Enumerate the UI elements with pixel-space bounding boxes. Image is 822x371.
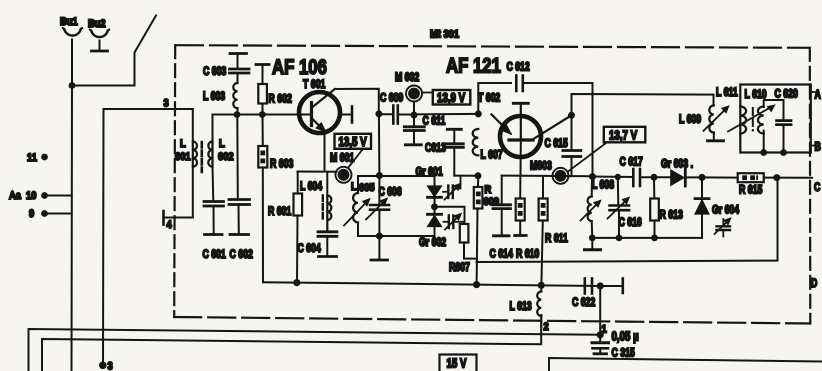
wire	[640, 176, 671, 178]
svg-text:T 601: T 601	[303, 79, 326, 91]
rail wire bottom	[263, 282, 600, 286]
svg-text:11: 11	[27, 152, 37, 164]
svg-text:D: D	[811, 278, 817, 290]
wire ground stem	[591, 238, 593, 249]
capacitor C601	[202, 167, 226, 262]
svg-text:C 622: C 622	[572, 297, 596, 309]
chassis bar under C601	[205, 233, 223, 236]
svg-text:602: 602	[218, 151, 234, 163]
wire switch to Bu1	[72, 85, 135, 87]
svg-text:1: 1	[601, 324, 606, 336]
chassis bar under C611	[405, 143, 421, 146]
svg-text:C 602: C 602	[230, 249, 254, 261]
svg-text:C 315: C 315	[611, 347, 635, 359]
ground bus wire	[592, 237, 702, 239]
node C616	[615, 174, 621, 180]
node mixer output	[589, 173, 596, 180]
wire Bu2 stem to bar	[99, 41, 101, 51]
svg-text:L: L	[351, 181, 357, 193]
capacitor C602	[229, 115, 253, 262]
measuring point M602	[395, 72, 433, 112]
svg-text:Bu2: Bu2	[88, 18, 106, 30]
node T602 collector	[568, 112, 575, 119]
wire emitter rail	[298, 171, 337, 173]
svg-text:L: L	[180, 138, 186, 150]
svg-text:13,5 V: 13,5 V	[339, 136, 368, 149]
node ground L608	[589, 235, 596, 242]
svg-text:T 602: T 602	[478, 92, 501, 104]
resistor R607	[449, 224, 477, 274]
bus line 2 (to node 2)	[42, 316, 541, 371]
15V supply box	[440, 355, 477, 371]
svg-text:M603: M603	[530, 160, 552, 172]
node tank bottom	[376, 233, 383, 240]
wire rail end	[600, 285, 622, 287]
diode Gr602	[379, 207, 446, 250]
svg-text:13,7 V: 13,7 V	[609, 129, 638, 142]
svg-text:15 V: 15 V	[446, 357, 466, 370]
svg-text:R 603: R 603	[270, 158, 294, 170]
inductor L609/L611 adjustable	[679, 87, 738, 140]
wire top link	[713, 95, 715, 106]
inductor L605 adjustable	[344, 176, 379, 236]
svg-text:R 611: R 611	[545, 233, 568, 245]
node 11	[27, 152, 48, 164]
svg-text:C 616: C 616	[618, 217, 642, 229]
inductor L603	[203, 83, 238, 108]
node emitter junction	[475, 110, 482, 117]
base bias wire	[502, 175, 593, 178]
svg-text:3: 3	[108, 361, 113, 371]
ground bar under Bu2	[92, 50, 108, 53]
svg-text:L 603: L 603	[203, 91, 225, 103]
inductor L610 secondary	[758, 100, 784, 153]
svg-text:10: 10	[26, 190, 37, 202]
node collector	[375, 110, 382, 117]
transistor T601	[299, 89, 352, 133]
voltage box 13,9V	[433, 90, 471, 105]
svg-text:9: 9	[29, 208, 34, 220]
capacitor C613	[425, 129, 463, 175]
wire C609 to node	[398, 114, 414, 116]
wire	[237, 73, 239, 83]
svg-text:M 602: M 602	[395, 72, 420, 84]
terminal A	[811, 89, 822, 101]
node box bottom L610	[760, 149, 767, 156]
svg-text:13,9 V: 13,9 V	[437, 92, 466, 105]
svg-text:R: R	[485, 184, 492, 196]
inductor L602	[208, 115, 234, 167]
svg-text:3: 3	[164, 98, 169, 110]
capacitor C622	[572, 279, 596, 310]
arrow through L610	[728, 105, 775, 132]
wire 9 stub	[45, 213, 72, 215]
svg-text:R 615: R 615	[739, 184, 763, 196]
svg-text:A: A	[814, 89, 821, 101]
svg-text:0,05 µ: 0,05 µ	[612, 330, 639, 343]
svg-text:C: C	[814, 182, 821, 194]
chassis bar above T602	[513, 102, 528, 105]
capacitor C603	[203, 66, 249, 78]
node tank rail dot A	[234, 111, 241, 118]
capacitor C604	[297, 232, 337, 256]
svg-text:Aa: Aa	[9, 190, 21, 202]
svg-text:L 609: L 609	[679, 114, 701, 126]
diode Gr603	[661, 158, 702, 186]
svg-text:L 613: L 613	[510, 301, 532, 313]
node diode mid	[431, 203, 438, 210]
wire collector up and right	[572, 94, 714, 115]
resistor R611	[539, 176, 568, 285]
capacitor C615	[544, 115, 580, 176]
svg-text:R 602: R 602	[269, 93, 293, 105]
wire	[262, 65, 264, 85]
node base L607	[475, 172, 482, 179]
node rail R609	[473, 281, 480, 288]
trimmer cap under Gr604	[715, 218, 731, 237]
wire node1 riser	[599, 286, 601, 341]
transistor T602	[492, 106, 572, 158]
node tank top	[376, 172, 383, 179]
chassis bar above R602	[256, 63, 269, 66]
node C611	[411, 112, 418, 119]
socket Bu1	[60, 16, 82, 35]
resistor R613	[650, 177, 683, 238]
wire to terminal C	[702, 176, 812, 178]
svg-text:C613: C613	[425, 142, 446, 154]
capacitor C611	[404, 115, 445, 144]
svg-text:B: B	[814, 141, 820, 153]
chassis bar above C603	[230, 52, 247, 55]
svg-text:L 607: L 607	[480, 149, 502, 161]
chassis bar under C604	[319, 255, 337, 258]
resistor R602	[258, 84, 292, 106]
chassis bar under C614	[494, 234, 510, 237]
inductor L613	[510, 285, 542, 327]
chassis bar ground	[585, 248, 601, 251]
inductor L610 primary on box edge	[740, 107, 746, 134]
node 3 bottom	[99, 361, 113, 371]
wire 10 to antenna line	[45, 195, 72, 197]
inductor L607	[473, 129, 503, 162]
inductor L608 adjustable	[581, 177, 615, 238]
capacitor C616 trimmer	[608, 177, 643, 238]
capacitor C614	[490, 176, 514, 261]
wire collector node down	[378, 114, 381, 176]
svg-text:R 610: R 610	[516, 248, 540, 260]
svg-text:Mt 301: Mt 301	[430, 29, 459, 41]
node output C	[773, 174, 780, 181]
chassis bar rail end	[621, 279, 624, 294]
inductor L601	[175, 109, 197, 218]
node Gr604	[699, 174, 706, 181]
wire output row	[593, 176, 634, 179]
svg-text:C 606: C 606	[378, 186, 402, 198]
capacitor C620	[777, 121, 791, 153]
wire T601 emitter down	[324, 131, 326, 172]
trimmer cap beside Gr601	[443, 176, 461, 200]
pointer to M603	[568, 142, 607, 171]
capacitor C609	[380, 92, 404, 123]
diode Gr604	[695, 177, 739, 238]
node box bottom C620	[780, 149, 787, 156]
junction dot Bu1	[69, 82, 76, 89]
chassis bar under R610	[515, 234, 527, 237]
capacitor C315	[592, 330, 639, 359]
bandfilter box L610 C620	[740, 85, 811, 153]
svg-text:Gr 601: Gr 601	[415, 166, 442, 178]
trimmer cap beside Gr602	[444, 213, 465, 229]
svg-text:L 611: L 611	[716, 87, 738, 99]
wire	[262, 104, 264, 115]
socket Bu2	[88, 18, 109, 37]
node rail R601	[293, 279, 300, 286]
module boundary Mt301 dashed box	[174, 45, 810, 323]
resistor R603	[258, 115, 293, 171]
chassis bar under tank	[371, 259, 388, 262]
wire C612 top	[478, 83, 592, 177]
capacitor C617	[619, 156, 643, 186]
resistor R615	[738, 173, 764, 197]
wire T602 base down	[520, 142, 522, 176]
wire T601 collector top	[335, 89, 379, 114]
svg-text:C 615: C 615	[544, 138, 568, 150]
svg-text:M 601: M 601	[330, 152, 355, 164]
svg-text:601: 601	[175, 151, 191, 163]
wire terminal 4 to L601	[164, 217, 193, 219]
node ground R613	[651, 235, 658, 242]
measuring point M603	[530, 160, 568, 183]
svg-text:AF 106: AF 106	[272, 56, 327, 79]
svg-text:605: 605	[359, 182, 375, 194]
svg-text:C 603: C 603	[203, 66, 227, 78]
svg-text:C 617: C 617	[619, 156, 643, 168]
svg-text:4: 4	[167, 219, 172, 231]
svg-text:609: 609	[483, 196, 499, 208]
node 1	[597, 324, 607, 339]
svg-text:Gr 604: Gr 604	[712, 204, 739, 216]
node Aa 10	[9, 190, 48, 202]
wire L601 feed vertical	[103, 109, 193, 365]
voltage box 13,7V	[604, 127, 646, 143]
inductor L604	[300, 172, 331, 232]
resistor R609	[474, 176, 500, 209]
node rail C315 riser	[597, 282, 604, 289]
diode Gr601	[415, 166, 442, 206]
resistor R601	[268, 172, 302, 283]
svg-text:AF 121: AF 121	[446, 55, 501, 78]
core of L601/L602	[201, 142, 204, 172]
switch arm	[135, 16, 157, 86]
resistor R610	[516, 176, 540, 261]
pointer to M601	[348, 149, 363, 168]
svg-text:Gr 603 .: Gr 603 .	[661, 158, 693, 170]
wire C613 to base node	[454, 175, 478, 177]
node rail L613	[538, 282, 545, 289]
svg-text:R 613: R 613	[660, 209, 684, 221]
wire diode node to R607	[435, 207, 465, 224]
svg-text:L: L	[219, 138, 225, 150]
svg-text:C 611: C 611	[422, 115, 445, 127]
svg-text:C 612: C 612	[506, 61, 530, 73]
chassis bar under L611	[708, 139, 724, 142]
terminal 4 bar	[162, 211, 165, 225]
lower unit box corner	[549, 358, 822, 371]
measuring point M601	[330, 152, 355, 182]
wire	[237, 54, 239, 69]
wire collector node to C609	[379, 113, 393, 115]
bus line 1 (to node 1)	[29, 329, 601, 371]
capacitor C612	[506, 61, 530, 91]
chassis bar under C602	[230, 233, 249, 236]
svg-text:2: 2	[543, 321, 548, 333]
wire tank to chassis	[378, 236, 380, 260]
node R613	[651, 174, 658, 181]
capacitor C606 trimmer	[366, 176, 402, 237]
svg-text:C 601: C 601	[202, 249, 226, 261]
node 9	[29, 208, 48, 220]
core L610	[752, 108, 754, 131]
tank rail wire	[213, 114, 311, 116]
svg-text:R607: R607	[449, 262, 470, 274]
wire node to emitter junction	[414, 113, 478, 116]
svg-text:R 601: R 601	[268, 206, 292, 218]
svg-text:L 604: L 604	[300, 181, 322, 193]
wire tank to diodes	[379, 175, 434, 177]
node tank rail dot B	[259, 111, 266, 118]
wire	[237, 108, 239, 115]
svg-text:Gr 602: Gr 602	[419, 237, 446, 249]
svg-text:C 604: C 604	[297, 243, 321, 255]
svg-text:L 608: L 608	[592, 179, 614, 191]
wire R603 down to rail corner	[262, 168, 264, 283]
wire R609 to rail	[476, 209, 479, 285]
terminal B	[811, 141, 821, 153]
svg-text:Bu1: Bu1	[60, 16, 78, 28]
node ground C616	[616, 235, 623, 242]
wire Bu1 vertical down	[71, 40, 74, 371]
ground return wire right	[477, 178, 778, 263]
svg-text:C 609: C 609	[380, 92, 404, 104]
svg-text:C 614: C 614	[490, 248, 514, 260]
voltage box 13,5V	[335, 134, 372, 149]
